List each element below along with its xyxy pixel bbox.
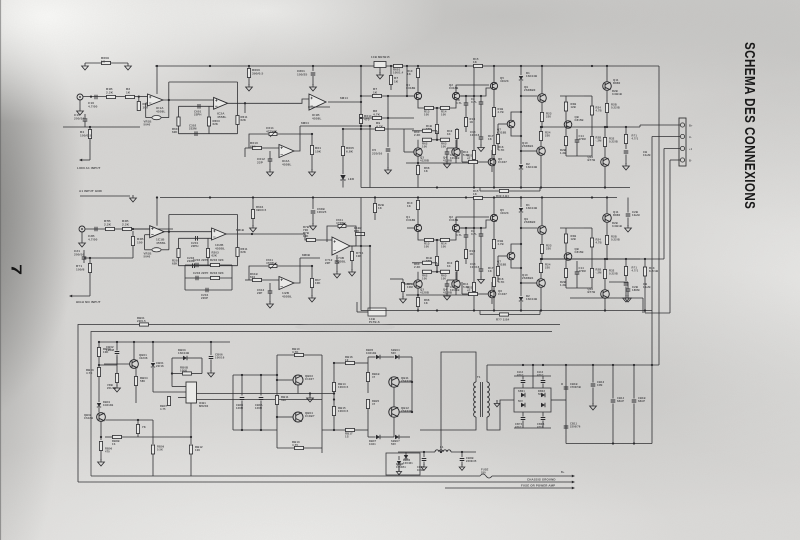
- capacitor C807: [423, 452, 425, 457]
- scanner edge line: [0, 0, 1, 540]
- wire: [456, 85, 489, 92]
- resistor R62: [423, 270, 432, 273]
- wire: [541, 198, 543, 226]
- resistor R611a: [237, 82, 239, 116]
- transistor Q801: [130, 360, 139, 369]
- IC pins right: [197, 393, 335, 395]
- svg-text:R2B-.2M: R2B-.2M: [596, 136, 603, 143]
- ground: [400, 296, 407, 303]
- wire: [99, 364, 117, 366]
- resistor R611B: [351, 246, 353, 252]
- pot VR1B 5040 feedback B: [168, 232, 170, 250]
- wire base Q3: [404, 283, 414, 285]
- resistor R601: [178, 106, 180, 117]
- svg-text:LED: LED: [348, 177, 354, 181]
- main DC rail: [487, 364, 659, 366]
- capacitor C2B: [627, 198, 629, 213]
- secondary lead top: [486, 365, 488, 382]
- transistor Q9: [538, 94, 547, 103]
- wire: [140, 96, 148, 98]
- wire: [651, 365, 653, 444]
- ladder B1 rail bottom: [179, 265, 238, 267]
- transistor Q7: [507, 120, 515, 128]
- ground: [310, 84, 317, 91]
- resistor R807: [137, 420, 139, 425]
- transistor Q2: [452, 224, 459, 231]
- pot VR601: [374, 62, 386, 68]
- resistor R66: [416, 298, 419, 307]
- wire base Q1: [407, 227, 414, 229]
- wire: [521, 282, 537, 284]
- ground: [130, 195, 137, 202]
- connector CN1 body: [679, 118, 686, 166]
- svg-text:C204220P: C204220P: [201, 293, 209, 300]
- ground: [590, 403, 597, 410]
- ground: [349, 269, 356, 276]
- resistor R817: [346, 428, 355, 431]
- rail B negative: [361, 310, 652, 312]
- fusible resistor R39B: [479, 311, 481, 315]
- capacitor C9: [464, 103, 469, 105]
- transistor Q7: [507, 252, 515, 260]
- capacitor C5: [386, 149, 391, 151]
- svg-text:1CB ME7B15: 1CB ME7B15: [371, 55, 390, 59]
- svg-text:R6056.8K: R6056.8K: [346, 146, 354, 154]
- resistor R26: [591, 247, 593, 269]
- primary lead bottom: [420, 417, 476, 430]
- resistor R17: [498, 123, 507, 125]
- resistor R18: [492, 240, 495, 249]
- wire: [460, 95, 481, 97]
- wire IC1A supply: [156, 66, 158, 94]
- svg-text:RB0122/0.5: RB0122/0.5: [137, 316, 146, 323]
- svg-text:C611472W: C611472W: [266, 258, 274, 265]
- transistor Q8: [564, 121, 572, 129]
- svg-text:R202 62K: R202 62K: [210, 258, 224, 262]
- wire: [450, 100, 457, 108]
- wire: [357, 311, 368, 313]
- ground: [444, 161, 451, 168]
- transistor Q802: [97, 413, 106, 422]
- snubber cap 4: [542, 412, 544, 417]
- wire: [604, 166, 606, 187]
- ground: [377, 72, 384, 79]
- svg-text:C302223M: C302223M: [189, 124, 197, 131]
- op-amp IC2B: [212, 228, 227, 240]
- wire: [297, 385, 299, 393]
- svg-text:RB0B100K: RB0B100K: [180, 366, 188, 373]
- capacitor C802: [116, 342, 118, 351]
- ground: [267, 169, 274, 176]
- capacitor C811: [564, 426, 569, 428]
- svg-text:C611472W: C611472W: [266, 126, 275, 134]
- ground: [421, 464, 427, 470]
- svg-text:R7410M: R7410M: [407, 282, 413, 289]
- svg-text:CB021B3M: CB021B3M: [106, 345, 115, 352]
- AC line 2 chassis ground: [78, 481, 573, 483]
- svg-text:R244.7B: R244.7B: [596, 106, 602, 113]
- capacitor C804: [260, 375, 262, 396]
- wire: [514, 427, 551, 429]
- resistor R605: [342, 129, 344, 146]
- bridge rectifier body: [514, 388, 551, 412]
- fusible resistor R39: [479, 188, 481, 192]
- resistor R603: [208, 106, 210, 117]
- resistor R604B: [252, 198, 254, 210]
- wire: [604, 147, 606, 158]
- transistor Q12: [601, 158, 610, 167]
- ladder B row3: [185, 277, 232, 279]
- resistor R8 row: [361, 117, 414, 119]
- svg-text:R23220: R23220: [546, 112, 552, 119]
- resistor R7B: [106, 227, 115, 230]
- op-amp IC2A: [214, 97, 228, 109]
- wire: [412, 130, 423, 132]
- op-amp IC1B: [309, 94, 326, 110]
- ground: [444, 293, 451, 300]
- resistor R601b on bus: [394, 64, 403, 67]
- resistor R3: [137, 102, 140, 111]
- svg-text:FUSE OR POWER AMP: FUSE OR POWER AMP: [521, 484, 555, 488]
- resistor R13: [425, 106, 434, 109]
- wire: [226, 233, 252, 235]
- resistor R1B2: [356, 232, 365, 235]
- capacitor C13: [479, 137, 484, 139]
- svg-text:R2B1.2B: R2B1.2B: [560, 148, 566, 155]
- wire: [374, 198, 376, 205]
- resistor R14: [441, 238, 450, 241]
- op-amp IC1B: [150, 226, 165, 238]
- pencil smudge: [295, 323, 395, 332]
- wire: [436, 134, 438, 140]
- snubber cap 1: [522, 376, 524, 380]
- capacitor C815: [633, 365, 635, 399]
- wire: [369, 126, 371, 188]
- diode D2: [519, 297, 523, 301]
- long vertical rail 1: [360, 198, 362, 311]
- transistor Q803: [293, 375, 303, 385]
- ground: [98, 459, 105, 466]
- svg-text:R6?10K: R6?10K: [315, 278, 321, 285]
- resistor R611B: [237, 215, 239, 248]
- trimmer C611: [269, 133, 277, 136]
- wire: [450, 232, 457, 240]
- wire: [604, 279, 606, 290]
- wire: [342, 181, 344, 188]
- resistor R25: [591, 96, 593, 106]
- capacitor C6: [625, 259, 627, 267]
- transistor Q11: [603, 82, 612, 91]
- wire: [493, 198, 495, 214]
- svg-text:QB03C102?: QB03C102?: [305, 374, 314, 381]
- transistor Q1: [414, 224, 421, 231]
- bridge output: [551, 399, 566, 401]
- ground: [309, 394, 311, 397]
- resistor R21: [469, 292, 478, 295]
- resistor R806: [99, 442, 102, 451]
- capacitor C26: [626, 289, 631, 291]
- connector pin 1: [680, 123, 684, 127]
- ground: [116, 383, 118, 387]
- diode D808: [404, 455, 408, 459]
- resistor R201: [178, 238, 180, 248]
- capacitor C612B: [335, 261, 340, 263]
- capacitor C612C: [268, 291, 273, 293]
- transistor Q812: [389, 407, 399, 417]
- wire output IC1A: [163, 99, 214, 101]
- resistor R801 on box edge: [140, 323, 149, 326]
- capacitor C814: [612, 365, 614, 399]
- transistor Q3: [414, 280, 422, 288]
- transistor Q10: [537, 279, 546, 288]
- wire: [252, 233, 305, 235]
- svg-text:C203 22PF: C203 22PF: [193, 271, 209, 275]
- long rail from bus: [658, 66, 660, 365]
- wire IC1B supply: [156, 198, 158, 226]
- resistor R1: [107, 95, 116, 98]
- inner enclosure box: [91, 332, 552, 477]
- wire: [244, 103, 246, 113]
- feedback wire: [278, 134, 301, 151]
- page number 7: [8, 264, 25, 275]
- ground: [250, 225, 257, 232]
- wire: [406, 66, 408, 96]
- resistor R63: [441, 138, 450, 141]
- svg-text:7K: 7K: [142, 425, 146, 429]
- capacitor C8: [479, 102, 484, 104]
- transistor Q9: [538, 226, 547, 235]
- ground: [623, 295, 630, 302]
- transistor Q1: [414, 92, 421, 99]
- resistor R28: [565, 260, 567, 268]
- resistor R31: [605, 104, 608, 113]
- svg-text:R14100: R14100: [441, 242, 447, 249]
- snubber cap 2: [542, 376, 544, 380]
- svg-text:C20122PH: C20122PH: [191, 241, 199, 248]
- resistor R815: [332, 407, 335, 416]
- ground: [82, 63, 89, 70]
- bridge diode 4: [541, 403, 545, 407]
- long vertical rail 2: [369, 246, 371, 311]
- svg-text:QB0141236: QB0141236: [139, 353, 148, 360]
- svg-text:T1: T1: [477, 375, 481, 379]
- wire output IC1B: [328, 101, 361, 103]
- diode D1: [520, 66, 522, 75]
- resistor R610: [253, 146, 262, 149]
- capacitor C10: [445, 152, 450, 154]
- transistor Q3: [414, 148, 422, 156]
- wire: [606, 66, 608, 82]
- wire pin1: [640, 124, 680, 126]
- resistor R32: [603, 138, 606, 147]
- resistor R803: [97, 368, 100, 377]
- ladder cluster 1 rail top: [179, 105, 214, 107]
- svg-text:R4B2.2K: R4B2.2K: [122, 219, 130, 227]
- internal bus: [99, 341, 230, 343]
- zener D804: [395, 355, 399, 359]
- node LION A1 INPUT: [80, 159, 90, 161]
- wire: [83, 96, 140, 98]
- svg-text:6M1B: 6M1B: [236, 228, 244, 232]
- resistor R18: [492, 108, 495, 117]
- op-amp IC4B: [279, 277, 294, 290]
- resistor R16: [492, 146, 495, 155]
- ground: [625, 225, 632, 232]
- resistor R804: [135, 368, 137, 376]
- resistor R609 power entry: [85, 62, 128, 64]
- resistor R24: [539, 264, 542, 273]
- wire output IC2A: [228, 102, 250, 104]
- resistor R31: [605, 236, 608, 245]
- resistor R18 tail: [436, 108, 438, 124]
- resistor R816: [334, 362, 345, 364]
- wire net 8M0B: [299, 258, 301, 266]
- ground: [478, 145, 485, 152]
- capacitor C808: [461, 452, 463, 457]
- resistor R21: [469, 160, 478, 163]
- svg-text:R?? 2.B4: R?? 2.B4: [496, 318, 510, 322]
- ground center tap: [496, 400, 498, 402]
- resistor R802: [98, 342, 100, 348]
- svg-text:R24220: R24220: [545, 131, 551, 138]
- svg-text:8M0B: 8M0B: [302, 253, 310, 257]
- outer enclosure box: [78, 325, 560, 483]
- wire: [411, 357, 413, 412]
- capacitor C812: [564, 387, 569, 389]
- wire: [184, 265, 186, 290]
- resistor R15 on bus: [474, 64, 483, 67]
- svg-text:R164.7K: R164.7K: [498, 145, 505, 152]
- svg-text:A-: A-: [689, 135, 692, 139]
- svg-text:R63100: R63100: [441, 274, 447, 281]
- resistor R11: [473, 228, 475, 282]
- wire: [456, 217, 489, 224]
- svg-text:R2B-.2M: R2B-.2M: [596, 268, 603, 275]
- channel B output to pin3: [542, 258, 664, 260]
- wire loop right: [321, 355, 323, 453]
- svg-text:A1 INPUT GND: A1 INPUT GND: [79, 189, 103, 193]
- resistor R21b: [88, 264, 91, 273]
- transformer T1 primary: [474, 382, 476, 417]
- op-amp IC3B: [332, 237, 350, 255]
- relay PLTB-S: [368, 308, 386, 316]
- ground: [459, 464, 465, 470]
- capacitor C10: [445, 284, 450, 286]
- ground: [478, 277, 485, 284]
- wire: [85, 126, 140, 128]
- svg-text:R244.7B: R244.7B: [596, 238, 602, 245]
- resistor R18 tail: [436, 240, 438, 256]
- capacitor C9: [464, 235, 469, 237]
- transformer core: [480, 382, 482, 417]
- ground: [385, 167, 392, 174]
- wire: [105, 419, 153, 421]
- svg-text:R71K: R71K: [394, 76, 399, 84]
- svg-text:CB1468AP: CB1468AP: [617, 396, 625, 403]
- wire: [604, 298, 606, 310]
- node HIGH NO INPUT: [70, 295, 90, 297]
- AC line 1b: [492, 475, 573, 477]
- capacitor C204: [185, 289, 232, 291]
- transistor Q5: [490, 214, 497, 221]
- resistor R26: [591, 115, 593, 137]
- feedback loop upper B: [168, 215, 170, 232]
- output wire: [542, 126, 640, 128]
- svg-text:CB0122/16: CB0122/16: [156, 361, 164, 368]
- AC line 1: [91, 475, 480, 477]
- inductor L1: [398, 451, 435, 453]
- resistor R818: [367, 363, 369, 373]
- ground: [309, 295, 316, 302]
- diode D803: [183, 356, 187, 360]
- resistor R15 on bus: [474, 196, 483, 199]
- IC bottom pin: [190, 403, 192, 444]
- svg-text:LION A1 INPUT: LION A1 INPUT: [77, 166, 101, 170]
- wire: [461, 282, 463, 294]
- output wire: [542, 258, 640, 260]
- svg-text:B+: B+: [689, 124, 693, 128]
- ground: [310, 223, 317, 230]
- resistor R60: [423, 129, 432, 132]
- wire channel A lower-left: [63, 126, 85, 128]
- svg-text:R13100: R13100: [424, 110, 430, 117]
- resistor R60: [423, 261, 432, 264]
- resistor R600: [248, 66, 250, 68]
- svg-text:R1B4.7B: R1B4.7B: [498, 107, 504, 114]
- wire: [333, 429, 335, 431]
- svg-text:HIGH NO INPUT: HIGH NO INPUT: [76, 300, 101, 304]
- wire: [418, 232, 425, 240]
- connector pin 2: [680, 134, 684, 138]
- primary lead top: [441, 352, 476, 452]
- resistor R612: [311, 134, 313, 146]
- trimmer C611C: [269, 265, 277, 268]
- resistor R809: [151, 445, 154, 454]
- op-amp IC2A: [279, 145, 294, 158]
- svg-text:CB05120M: CB05120M: [236, 403, 244, 410]
- wire: [570, 297, 643, 299]
- svg-text:C202 22PF: C202 22PF: [193, 258, 209, 262]
- ground: [77, 108, 84, 115]
- ground: [267, 301, 274, 308]
- wire: [436, 266, 438, 272]
- resistor R27: [565, 228, 567, 234]
- LED: [340, 175, 345, 180]
- resistor R7 row: [361, 95, 407, 97]
- capacitor C601: [312, 66, 314, 71]
- diode box D806: [386, 453, 420, 475]
- wire: [133, 228, 150, 230]
- capacitor C15: [83, 119, 88, 121]
- transistor Q10: [537, 147, 546, 156]
- wire base Q2: [460, 227, 474, 229]
- ground: [79, 240, 86, 247]
- wire: [541, 66, 543, 94]
- capacitor C2B: [95, 227, 97, 232]
- wire: [418, 100, 425, 108]
- svg-text:CHASSIS GROUND: CHASSIS GROUND: [527, 478, 556, 482]
- svg-text:DB0?1N41: DB0?1N41: [369, 439, 377, 446]
- wire: [277, 379, 293, 381]
- resistor R5B: [131, 237, 134, 246]
- wire: [511, 112, 521, 120]
- transistor Q4: [452, 148, 460, 156]
- wire base Q3: [404, 151, 414, 153]
- wire base Q2: [460, 95, 474, 97]
- wire: [514, 375, 551, 377]
- diode D801: [98, 400, 100, 402]
- pot VR1B 5040 in feedback: [168, 100, 170, 118]
